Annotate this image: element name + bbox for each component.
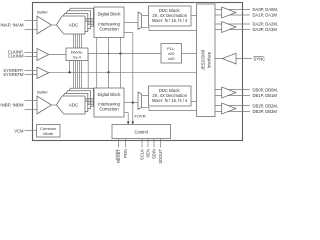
svg-text:Correction: Correction — [99, 107, 119, 112]
wire clock buffer to divider — [49, 54, 66, 56]
buffer amplifier B — [37, 96, 52, 114]
clock drop wire to ADC B — [87, 54, 89, 89]
svg-text:Mixer: fs / 16, fs / 4: Mixer: fs / 16, fs / 4 — [152, 18, 188, 23]
bypass wire A to JESD — [142, 27, 197, 30]
wire DDC A to JESD interface — [191, 15, 197, 17]
svg-text:PDN: PDN — [123, 149, 128, 158]
wire digital block B to mux B — [124, 102, 138, 104]
node INAP/INAM input wires — [25, 20, 38, 22]
vertical wires between digital blocks — [96, 38, 98, 89]
wire mux A to DDC A — [142, 15, 149, 17]
wire SYNC — [215, 58, 252, 60]
svg-text:VCM: VCM — [14, 129, 24, 134]
svg-text:RESET: RESET — [116, 149, 121, 163]
serial lane wires DB2/DB3 — [215, 105, 250, 107]
svg-text:x40: x40 — [168, 56, 175, 61]
output driver DB2/DB3 — [222, 103, 236, 114]
svg-text:Control: Control — [134, 129, 148, 134]
mux B (demux to DDC / bypass) — [138, 92, 142, 110]
serial lane wires DB0/DB1 — [215, 89, 250, 91]
svg-text:DB2P, DB2M,: DB2P, DB2M, — [253, 103, 279, 108]
junction dot sysref/divider — [69, 71, 71, 73]
svg-text:SYSREFM: SYSREFM — [3, 72, 24, 77]
wire mux B to DDC B — [142, 95, 149, 97]
common mode block — [37, 125, 61, 138]
svg-text:DB0P, DB0M,: DB0P, DB0M, — [253, 87, 279, 92]
svg-text:Digital Block: Digital Block — [97, 11, 121, 16]
digital block B (interleaving correction) — [94, 88, 124, 117]
svg-text:SCLK: SCLK — [140, 149, 145, 160]
svg-text:Correction: Correction — [99, 27, 119, 32]
DDC block B — [149, 86, 192, 106]
wire digital B to control — [124, 112, 128, 114]
svg-text:SDIN: SDIN — [152, 149, 157, 159]
svg-text:INBP, INBM: INBP, INBM — [0, 103, 23, 108]
svg-text:Interface: Interface — [207, 51, 212, 68]
junction dot clock to digital vertical — [119, 52, 121, 54]
svg-text:Buffer: Buffer — [37, 10, 48, 15]
DDC block A — [149, 6, 192, 26]
svg-text:Buffer: Buffer — [37, 90, 48, 95]
wire DDC B to JESD interface — [191, 101, 197, 103]
ADC A interleaved stack — [56, 8, 93, 34]
output driver DB0/DB1 — [222, 87, 236, 98]
wire digital A to control (FOVR) — [124, 32, 133, 34]
digital block A (interleaving correction) — [94, 7, 124, 38]
bus wires ADC B to digital block B — [85, 98, 94, 100]
mux A (demux to DDC / bypass) — [138, 12, 142, 30]
svg-text:JESD204B: JESD204B — [201, 50, 206, 71]
svg-text:Mode: Mode — [43, 131, 54, 136]
svg-text:ADC: ADC — [69, 23, 78, 28]
svg-text:CLKINM: CLKINM — [8, 54, 24, 59]
svg-text:Mixer: fs / 16, fs / 4: Mixer: fs / 16, fs / 4 — [152, 98, 188, 103]
svg-text:INAP, INAM: INAP, INAM — [0, 23, 23, 28]
wire divider output to PLL — [88, 53, 161, 55]
pin wire VCM — [25, 130, 38, 132]
svg-text:DA2P, DA2M,: DA2P, DA2M, — [253, 22, 279, 27]
svg-text:DA1P, DA1M: DA1P, DA1M — [253, 13, 278, 18]
svg-text:DB1P, DB1M: DB1P, DB1M — [253, 93, 278, 98]
PLL block — [161, 44, 182, 64]
svg-text:SDOUT: SDOUT — [158, 149, 163, 164]
bypass wire B to JESD — [142, 107, 197, 110]
SPI pin wires — [118, 139, 120, 148]
output driver DA2/DA3 — [222, 22, 236, 33]
buffer amplifier A — [37, 16, 52, 34]
divide-by-4 block — [66, 48, 88, 61]
svg-text:DA0P, DA0M,: DA0P, DA0M, — [253, 7, 279, 12]
pin label RESET (overline) — [115, 150, 117, 161]
wire PLL to JESD interface — [182, 53, 197, 55]
clock bus wires (divider distribution) — [73, 33, 75, 95]
wire divider to sysref branch — [69, 61, 71, 73]
svg-text:by-4: by-4 — [73, 55, 82, 60]
JESD204B interface block — [197, 4, 216, 117]
output driver DA0/DA1 — [222, 7, 236, 18]
svg-text:FOVR: FOVR — [135, 114, 146, 119]
wire buffer B to ADC B — [52, 104, 59, 106]
bus wires ADC A to digital block A — [85, 18, 94, 20]
pin wires INBP/INBM — [25, 100, 38, 102]
sysref input buffer — [37, 67, 49, 79]
svg-text:DB3P, DB3M: DB3P, DB3M — [253, 109, 278, 114]
wire digital block A to mux A — [124, 22, 138, 24]
svg-text:SEN: SEN — [146, 149, 151, 158]
junction dot FOVR line / digital B output — [132, 101, 134, 103]
pin wires SYSREFP/SYSREFM — [25, 70, 38, 72]
svg-text:DA3P, DA3M: DA3P, DA3M — [253, 27, 278, 32]
clock input buffer — [37, 49, 49, 61]
svg-text:ADC: ADC — [69, 103, 78, 108]
outer boundary box — [33, 3, 243, 141]
serial lane wires DA2/DA3 — [215, 23, 250, 25]
pin wires CLKINP/CLKINM — [25, 52, 38, 54]
wire sysref distribution — [49, 71, 197, 73]
control block — [112, 125, 171, 139]
svg-text:Digital Block: Digital Block — [97, 92, 121, 97]
wire buffer A to ADC A — [52, 24, 59, 26]
input buffer SYNC — [222, 53, 236, 64]
junction dot sysref/digital vertical — [107, 71, 109, 73]
serial lane wires DA0/DA1 — [215, 9, 250, 11]
ADC B interleaved stack — [56, 88, 93, 114]
svg-text:SYNC: SYNC — [254, 56, 266, 61]
